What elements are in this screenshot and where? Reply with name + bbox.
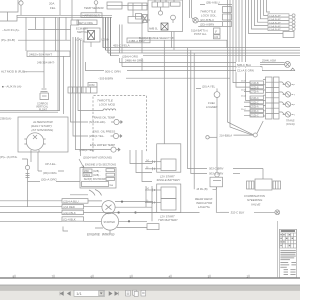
gauge cluster G8 volt	[283, 112, 296, 117]
safety relay K3 box	[80, 168, 116, 189]
svg-text:ALT MOD B (FLB)+: ALT MOD B (FLB)+	[1, 70, 27, 74]
wire diagonal D3	[257, 121, 263, 133]
viewer scrollbar groove	[0, 285, 300, 291]
svg-text:(2)4 RED: (2)4 RED	[63, 205, 75, 209]
label 20-A YEL	[202, 85, 216, 89]
sheet bottom border line	[0, 277, 300, 279]
svg-text:C1-A JU-4P: C1-A JU-4P	[269, 28, 281, 31]
gauge sender G2	[111, 119, 123, 124]
wire drop W3	[59, 0, 61, 15]
wire drop to solenoid	[145, 186, 147, 207]
label 25A-4 ORG	[119, 53, 143, 58]
bus line 4	[111, 55, 301, 57]
svg-text:(20)-A ORG: (20)-A ORG	[41, 178, 58, 182]
wire strip to gauges	[279, 82, 286, 114]
wire gauge drop 5	[80, 40, 82, 156]
label trans oil temp	[89, 116, 115, 125]
fuse block FL1 (top-left partial box)	[0, 0, 18, 21]
wire label box C-4 BLK	[62, 217, 84, 222]
title block revision table	[280, 229, 297, 248]
label 24B 30-4 WHT	[37, 61, 55, 65]
label eng oil press	[89, 130, 115, 139]
wire drop M lead	[63, 56, 65, 114]
svg-text:(P)+ [FLB]: (P)+ [FLB]	[1, 38, 15, 42]
label fuel sender	[206, 101, 218, 109]
relay K2 box top	[128, 3, 147, 10]
svg-text:SWITCH: SWITCH	[77, 30, 88, 34]
svg-text:FLOAT: FLOAT	[39, 109, 47, 112]
arrow terminal A1	[291, 68, 296, 71]
bus line 2	[106, 49, 301, 51]
label 24B6-A BLU	[127, 38, 150, 43]
svg-text:SE B(P) SHUTDOWN: SE B(P) SHUTDOWN	[84, 179, 107, 181]
wire alternator D+	[37, 152, 39, 171]
svg-text:(COLD): (COLD)	[286, 123, 295, 126]
ground terminal X2 (circle-X)	[275, 210, 280, 215]
wire V248	[249, 0, 284, 34]
svg-text:ENGINE WIRING: ENGINE WIRING	[87, 232, 115, 236]
wire drop ECM left 1	[163, 40, 165, 144]
wire drop ECM right 1	[193, 53, 195, 189]
wire drop W2c	[55, 17, 57, 51]
relay K1 box top	[107, 2, 122, 9]
ECM sensor circle	[171, 15, 176, 23]
svg-text:- AUX IN (A)-: - AUX IN (A)-	[2, 28, 20, 32]
wire BT1 lead 2	[145, 167, 161, 170]
svg-text:(-): (-)	[146, 167, 149, 169]
toolbar icon copy pages	[133, 290, 139, 296]
junction node N1	[121, 201, 123, 203]
svg-text:ENG. OIL PRESS: ENG. OIL PRESS	[93, 130, 115, 134]
inductor L2 (coil)	[100, 109, 116, 111]
terminal fuse ticks	[26, 174, 30, 178]
svg-text:TRANS OIL TEMP: TRANS OIL TEMP	[92, 116, 115, 120]
label 511A BATT POST	[191, 28, 208, 35]
svg-text:LIGHTS•: LIGHTS•	[198, 205, 210, 209]
label engine sections	[85, 162, 116, 166]
wire pnl drop	[22, 159, 28, 207]
junction box J5	[283, 32, 294, 38]
label AUX IN A	[2, 28, 20, 32]
gauge panel dashed box	[93, 96, 147, 153]
svg-text:HARNESS(LT): HARNESS(LT)	[83, 14, 101, 18]
svg-text:2D-C: 2D-C	[241, 109, 246, 111]
wire label 21A-B BLK	[220, 134, 254, 137]
wire label box SET A ORG	[77, 20, 97, 25]
junction node N3	[128, 220, 130, 222]
label 52B-C BLA	[236, 62, 260, 67]
zone tick 7	[247, 274, 249, 278]
wire strip pins left	[263, 80, 266, 116]
svg-text:LOADER: LOADER	[206, 105, 218, 109]
row pre-labels	[241, 81, 246, 111]
wire label box row R6	[250, 105, 264, 109]
fuel sender FS2	[214, 92, 220, 98]
arrow pointer into relay	[79, 159, 84, 168]
svg-text:POST ALL: POST ALL	[194, 32, 207, 36]
svg-text:21A-B)BLA: 21A-B)BLA	[220, 134, 233, 137]
svg-text:(AT STANDING): (AT STANDING)	[31, 128, 53, 132]
zone tick 1	[13, 274, 15, 278]
svg-text:(2B)-A BLU: (2B)-A BLU	[206, 0, 220, 4]
wire V254	[255, 0, 269, 26]
wire relay stub	[70, 194, 88, 196]
label 30-4 ORG	[43, 171, 57, 175]
wire stub bottom-left bracket	[63, 227, 68, 232]
label C1-A E ORN	[236, 68, 262, 73]
wire range select underline	[139, 40, 227, 47]
label temp sensor	[84, 6, 104, 10]
svg-text:24B2/+30/4 WHT: 24B2/+30/4 WHT	[29, 52, 52, 56]
wire BT2 lead 1	[145, 188, 161, 191]
connector row CR4	[268, 24, 295, 28]
svg-text:2D-B: 2D-B	[241, 81, 246, 83]
wire ECM bottom stubs	[172, 32, 175, 51]
wire BT1 lead 1	[145, 160, 161, 163]
wire bundle B drop 4	[110, 17, 112, 55]
svg-text:LOAD: LOAD	[75, 38, 82, 42]
label 23B E A	[0, 117, 12, 121]
wire V242	[242, 0, 285, 64]
relay row 3	[84, 177, 115, 181]
svg-text:2D-A: 2D-A	[241, 95, 246, 98]
svg-text:(C2B) -: (C2B) -	[93, 171, 101, 173]
wire starter to battery	[136, 212, 157, 214]
wire pair C drop 1	[119, 25, 121, 63]
wire label box 24B2 WHT	[27, 51, 70, 57]
label ALT MOD B	[1, 70, 27, 74]
label LOAD left	[75, 38, 82, 42]
connector stack CS3	[223, 22, 232, 27]
wire label box row R2	[250, 85, 264, 89]
battery BT2 cell upper	[161, 187, 176, 199]
wire V257	[258, 0, 269, 22]
label trans cluster	[286, 120, 295, 126]
fuse label 20A FEL	[49, 1, 56, 9]
svg-text:B+(A)+I RANGE SELECT UN: B+(A)+I RANGE SELECT UN	[139, 36, 174, 40]
svg-text:25H4L ASM: 25H4L ASM	[262, 58, 276, 62]
gauge sender G4	[111, 147, 120, 152]
wire V230	[230, 0, 253, 135]
toolbar page combo box	[74, 290, 105, 296]
svg-text:(C)-4 BLK: (C)-4 BLK	[63, 218, 76, 222]
label GP FLW	[45, 162, 56, 166]
wire bundle B drop 2	[105, 17, 107, 50]
label ECM IGN switch	[76, 27, 88, 35]
label eng water temp	[79, 143, 115, 152]
wire drop right of relay 1	[130, 150, 152, 164]
wire label 4B ML-B	[196, 187, 217, 191]
wire V233	[233, 0, 250, 83]
svg-text:(N/A FD-HD)-: (N/A FD-HD)-	[89, 120, 106, 124]
svg-text:(21D)-B: (21D)-B	[251, 83, 260, 85]
wire solenoid to right	[102, 201, 152, 207]
svg-text:(25D)-A: (25D)-A	[251, 106, 260, 109]
terminal M1 mid	[206, 136, 217, 139]
svg-text:(23D)-C: (23D)-C	[251, 102, 260, 104]
wire V236	[236, 0, 250, 87]
throttle lock solenoid L1	[190, 0, 199, 23]
rear deck lamp DS1	[210, 172, 223, 187]
svg-text:(20)04 WHT-(GROUND): (20)04 WHT-(GROUND)	[83, 156, 112, 160]
starter solenoid M1	[84, 201, 116, 214]
wire 2B-A BLU	[200, 3, 232, 5]
starter motor M2	[84, 213, 119, 231]
bus line 3	[108, 52, 300, 54]
label 505-C ORN	[104, 68, 127, 73]
svg-text:(-): (-)	[146, 201, 149, 203]
label 2B-A BLU top	[206, 0, 220, 4]
wire drop W2d	[65, 17, 67, 40]
wire BT2 lead 2	[145, 201, 161, 204]
svg-text:LOCK SOL.: LOCK SOL.	[201, 13, 217, 17]
wire drop W2	[43, 17, 45, 88]
label 503-B BRN	[98, 76, 113, 80]
wire label 20-A ORG with lead	[28, 178, 81, 182]
label 24B6 4A ORG	[125, 58, 144, 62]
wire gauge drop 4	[78, 37, 100, 111]
wire drop W1	[25, 17, 27, 51]
svg-text:(22D)-B: (22D)-B	[251, 87, 260, 89]
wire drop right of relay 2	[136, 150, 152, 173]
wire V251	[252, 0, 269, 29]
wire to panel W5	[38, 170, 64, 172]
svg-text:LOCK MOD: LOCK MOD	[99, 102, 116, 106]
wire valve feed drop	[262, 169, 264, 180]
wire K1 to ECM	[122, 5, 148, 7]
svg-text:(21)4 BLK: (21)4 BLK	[63, 211, 76, 215]
wire label box 22-4A BLU	[62, 199, 88, 204]
svg-text:FEL: FEL	[50, 6, 56, 10]
zone tick 3	[91, 274, 93, 278]
wire label box row R4	[250, 96, 264, 100]
wire gauge drop 3	[76, 37, 111, 150]
svg-text:F: F	[215, 30, 217, 34]
label P+ A PNL	[0, 155, 18, 159]
battery BT1 cell	[161, 159, 176, 171]
wire row feed stubs	[244, 92, 250, 116]
wire V260	[261, 0, 269, 19]
title block notes text	[280, 250, 296, 275]
wire aux in lead	[28, 28, 71, 30]
wire drop from K2	[141, 23, 143, 71]
fuse box F	[214, 28, 221, 34]
wire wavy 1	[89, 190, 95, 196]
wire label box row R3	[250, 90, 264, 94]
zone tick 2	[52, 274, 54, 278]
wire drop W4	[71, 0, 73, 20]
toolbar icon report	[141, 290, 146, 296]
junction box J4	[71, 20, 79, 25]
label LOAD right	[102, 38, 109, 42]
zone tick 6	[208, 274, 210, 278]
label battery BT1	[157, 175, 182, 183]
alternator caption	[31, 120, 54, 132]
wire P+ FLB lead	[18, 39, 71, 41]
connector row CR2	[268, 17, 295, 21]
label ground wire	[83, 156, 112, 160]
alternator G1 (circle)	[24, 133, 45, 152]
toolbar prev page button	[67, 292, 70, 296]
svg-text:455-C YELA: 455-C YELA	[113, 44, 130, 48]
connector stack CS1	[223, 7, 232, 13]
svg-text:ENG WATER TEMP: ENG WATER TEMP	[90, 143, 115, 147]
wire pair C drop 2	[121, 25, 123, 67]
wire V263	[264, 0, 269, 15]
toolbar first page button	[60, 292, 63, 296]
wire 503-C BRN	[188, 48, 264, 171]
connector X1 (circle-X)	[285, 62, 291, 68]
svg-text:STARTER: STARTER	[104, 221, 116, 224]
label rear deck indicator lights	[195, 197, 214, 209]
battery BT2 enclosure	[157, 184, 181, 213]
wire label box row R8	[250, 114, 264, 118]
wire 503-B BRN lead	[126, 77, 230, 79]
combination steering valve V1	[247, 179, 281, 190]
svg-text:(22)4-A BLU: (22)4-A BLU	[63, 200, 78, 204]
bus line 455-C YEL	[103, 47, 300, 49]
alternator box outline	[18, 117, 68, 152]
svg-text:2D-B: 2D-B	[241, 89, 246, 91]
toolbar next page button	[109, 292, 112, 296]
wire starter ground	[119, 220, 147, 222]
svg-text:MSD2: MSD2	[84, 175, 91, 177]
battery BT2 cell lower	[161, 199, 176, 211]
connector box C2	[128, 17, 150, 24]
label AUX IN A lower	[2, 85, 22, 89]
wire 503-E BRN	[191, 50, 240, 175]
gauge cluster G5 fuel	[283, 82, 296, 87]
connector box C5	[147, 224, 159, 230]
svg-text:23B E(A)-: 23B E(A)-	[0, 117, 12, 121]
svg-text:■ - AUX IN (A)-: ■ - AUX IN (A)-	[2, 85, 22, 89]
label P+ FLB	[1, 38, 15, 42]
svg-text:SET A ORG: SET A ORG	[79, 21, 93, 25]
wire K2 to C2	[132, 10, 134, 17]
wire gauge drop 6	[82, 40, 84, 93]
viewer toolbar	[0, 290, 300, 300]
wire gauge drop 1	[71, 25, 89, 122]
label AMB SL	[149, 28, 158, 31]
connector stack CS2	[223, 14, 232, 20]
wire label box row R7	[250, 109, 264, 113]
label 455-C YEL	[113, 44, 130, 48]
gauge cluster G7 oil	[283, 102, 296, 107]
bus line 505-C ORN	[86, 62, 291, 71]
svg-text:(21D)-C: (21D)-C	[251, 98, 260, 100]
wire label 2C-B BLU	[198, 18, 222, 22]
ECM key contact circle	[158, 7, 162, 15]
svg-text:MSD: MSD	[84, 171, 89, 173]
relay row 1	[83, 169, 115, 173]
wire fuel sender drop	[216, 98, 218, 173]
svg-text:511A BATT(+): 511A BATT(+)	[191, 28, 208, 32]
svg-text:(C2B) -: (C2B) -	[93, 175, 101, 177]
label float switch	[36, 103, 49, 112]
svg-text:(+): (+)	[146, 160, 149, 162]
svg-text:- 503-B BRN: - 503-B BRN	[98, 76, 113, 80]
connector bar label box	[88, 83, 97, 88]
svg-text:52B-C BLA: 52B-C BLA	[237, 63, 251, 67]
wire rear deck drop	[216, 187, 220, 212]
wire label box HARNESS	[81, 13, 102, 18]
temp sensor TS1 symbol	[94, 1, 98, 13]
wire drop right of relay 3	[142, 150, 152, 182]
wire starter feed	[99, 212, 200, 214]
label combination steering valve	[244, 194, 266, 206]
wire label box 21-4 BLK	[62, 210, 84, 215]
svg-text:(27D)-A: (27D)-A	[251, 91, 260, 94]
fuel float sender FS1 (cone symbol)	[40, 89, 49, 100]
label battery BT2	[158, 214, 179, 222]
svg-text:(+): (+)	[146, 188, 149, 190]
bus line 52B	[122, 67, 262, 71]
wire wavy 2	[95, 190, 102, 196]
title block frame	[278, 221, 297, 278]
zone tick 5	[169, 274, 171, 278]
connector row CR1	[268, 14, 295, 18]
wire V245	[246, 0, 251, 100]
wire V227	[228, 0, 253, 135]
gauge sender G3	[111, 133, 123, 138]
svg-text:TWO BATTERY: TWO BATTERY	[158, 218, 179, 222]
svg-text:24B6 4A ORG: 24B6 4A ORG	[125, 58, 144, 62]
svg-text:VALVE: VALVE	[251, 202, 261, 206]
terminal post T1	[19, 0, 23, 15]
label 25H4L ASM	[262, 58, 276, 62]
svg-text:332-C BLK: 332-C BLK	[231, 211, 245, 215]
wire V239	[239, 0, 240, 70]
wire drop W2b	[35, 17, 37, 29]
relay row 2	[83, 173, 115, 177]
wire bundle B drop 1	[102, 17, 104, 47]
svg-text:(20A)4 YEL-: (20A)4 YEL-	[89, 134, 104, 138]
wire alt mod lead	[24, 71, 44, 73]
wire fuel sender lead	[196, 88, 217, 91]
svg-text:TEMP SENSOR: TEMP SENSOR	[84, 6, 104, 10]
bus line 234-C BLK	[120, 62, 285, 64]
svg-text:C1)-A E ORN: C1)-A E ORN	[237, 69, 254, 73]
label range select unit	[139, 36, 174, 40]
connector row CR5	[268, 27, 295, 31]
connector row CR3	[268, 21, 295, 25]
toolbar last page button	[115, 292, 118, 296]
svg-text:UP A EL-: UP A EL-	[45, 162, 56, 166]
wire label box row R1	[250, 81, 264, 85]
terminal stud T2	[25, 165, 29, 169]
svg-text:505-C ORN: 505-C ORN	[105, 69, 121, 73]
wire V266	[267, 0, 271, 12]
wire bus lower-left W8	[0, 212, 62, 214]
svg-text:(P)+ (A) PNL: (P)+ (A) PNL	[0, 155, 18, 159]
svg-text:24B 30/4 WHT-: 24B 30/4 WHT-	[37, 61, 55, 65]
ECM side connector boxes	[136, 14, 148, 23]
wire alternator B+	[30, 152, 32, 162]
wire gauge drop 2	[73, 37, 88, 136]
svg-text:⌂B ML-(B): ⌂B ML-(B)	[196, 188, 208, 191]
ECM connector block	[152, 0, 180, 7]
panel box left (cab panel enclosure)	[0, 17, 60, 112]
wire starter bottom	[95, 228, 147, 234]
ignition switch S1	[84, 28, 100, 47]
wire 332-C BLK	[220, 211, 275, 215]
wire drop to ground line	[151, 186, 153, 221]
svg-text:503-C BRN: 503-C BRN	[209, 167, 224, 171]
label throttle lock mod	[97, 98, 116, 106]
terminal strip TB1	[266, 77, 280, 119]
zone tick 4	[130, 274, 132, 278]
gauge cluster G6 temp	[283, 92, 296, 97]
